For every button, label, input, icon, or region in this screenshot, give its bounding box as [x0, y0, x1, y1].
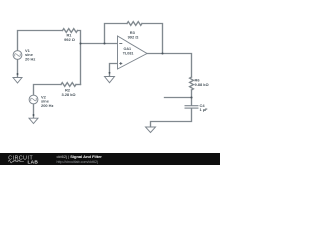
wire V2 bottom to ground	[33, 104, 35, 118]
wire R6 to node	[191, 90, 193, 98]
resistor R6	[190, 77, 194, 90]
node dot op-amp + ground	[109, 72, 111, 74]
wire feedback right vertical to output	[142, 24, 163, 54]
node dot V2 ground	[33, 114, 35, 116]
wire op-amp noninverting input to ground	[110, 64, 118, 77]
ground V1	[13, 78, 22, 84]
svg-text:ckt62j | Signal And Filter: ckt62j | Signal And Filter	[57, 154, 103, 159]
footer bar	[0, 153, 220, 165]
wire V2 top to R2	[34, 85, 62, 96]
wire V1 bottom to ground	[17, 59, 19, 77]
svg-text:992 Ω: 992 Ω	[64, 37, 75, 42]
logo waveform	[8, 160, 24, 163]
ground V2	[29, 118, 38, 123]
capacitor C4	[185, 106, 199, 108]
svg-text:992 Ω: 992 Ω	[128, 34, 139, 39]
wire feedback left vertical	[105, 24, 128, 44]
resistor R2	[61, 83, 76, 87]
wire node to C4	[191, 98, 193, 106]
svg-text:1 µF: 1 µF	[200, 107, 209, 112]
node dot feedback at inverting input	[103, 42, 105, 44]
node dot feedback at output	[161, 52, 163, 54]
source V2	[29, 95, 38, 104]
source V1	[13, 51, 22, 60]
wire R1 to summing node	[78, 31, 81, 85]
ground output RC	[146, 127, 156, 133]
wire summing node to op-amp inverting input	[81, 43, 118, 45]
wire C4 to ground	[151, 109, 192, 127]
wire V1 top to R1	[18, 31, 63, 51]
svg-text:20 Hz: 20 Hz	[25, 56, 35, 61]
svg-text:http://circuitlab.com/ckt62j: http://circuitlab.com/ckt62j	[57, 160, 99, 164]
node dot R6/C4 junction	[190, 96, 192, 98]
svg-text:LAB: LAB	[28, 159, 39, 165]
wire R2 to summing node	[76, 84, 81, 86]
svg-text:200 Hz: 200 Hz	[41, 103, 54, 108]
wire op-amp output	[147, 54, 192, 78]
op-amp OA1	[118, 36, 148, 69]
svg-text:OA1: OA1	[124, 47, 132, 51]
svg-text:9.88 kΩ: 9.88 kΩ	[195, 82, 209, 87]
resistor R1	[63, 29, 78, 33]
svg-text:3.28 kΩ: 3.28 kΩ	[61, 92, 75, 97]
node dot summing junction	[79, 42, 81, 44]
svg-text:TL081: TL081	[123, 52, 134, 56]
wire stub at R6/C4 node	[165, 97, 192, 99]
resistor R3	[127, 22, 142, 26]
ground op-amp + input	[105, 77, 115, 83]
node dot V1 ground	[17, 73, 19, 75]
